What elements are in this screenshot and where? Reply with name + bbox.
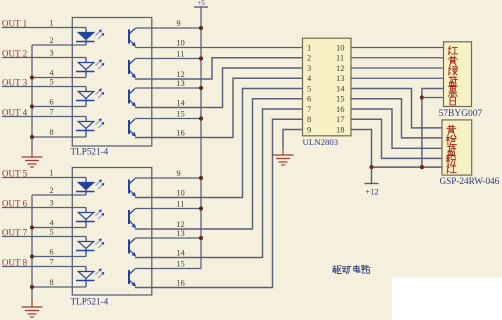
junction white wire bbox=[420, 95, 424, 99]
ground block B bbox=[22, 300, 43, 317]
title text: drive circuit bbox=[333, 266, 342, 274]
LED D1 ch1 filled bbox=[76, 28, 104, 46]
svg-text:14: 14 bbox=[176, 98, 185, 108]
svg-text:OUT 3: OUT 3 bbox=[2, 77, 28, 87]
svg-text:OUT 8: OUT 8 bbox=[2, 257, 28, 267]
junction bus/pin6 bbox=[30, 254, 34, 258]
emitter wire pin14 blkB to ULN pin7 bbox=[135, 109, 303, 258]
+5 power symbol bbox=[194, 6, 208, 8]
svg-text:7: 7 bbox=[307, 104, 311, 114]
opto-coupler U2 TLP521-4 box bbox=[72, 168, 152, 296]
char green motor1 bbox=[449, 66, 458, 75]
svg-text:OUT 4: OUT 4 bbox=[2, 107, 28, 117]
+12 power symbol bbox=[371, 167, 373, 183]
svg-text:57BYG007: 57BYG007 bbox=[439, 109, 483, 119]
svg-text:2: 2 bbox=[49, 185, 53, 195]
char orange motor2 bbox=[446, 135, 456, 145]
char black motor1 bbox=[449, 87, 457, 97]
svg-text:5: 5 bbox=[49, 227, 53, 237]
junction +5 bus / collector bbox=[199, 26, 203, 30]
svg-text:14: 14 bbox=[176, 248, 185, 258]
char red motor2 bbox=[447, 165, 456, 174]
collector wire pin 11 block B bbox=[135, 208, 201, 210]
junction bus/pin6 bbox=[30, 104, 34, 108]
collector wire pin 13 block B bbox=[135, 237, 201, 239]
junction bus/pin8 bbox=[30, 285, 34, 289]
wire ULN pin14 to motor2 pin 1 bbox=[351, 89, 442, 128]
svg-text:TLP521-4: TLP521-4 bbox=[71, 147, 109, 157]
collector wire pin 15 block B bbox=[135, 268, 201, 270]
svg-text:5: 5 bbox=[307, 83, 311, 93]
svg-text:12: 12 bbox=[336, 63, 345, 73]
LED D8 ch4 bbox=[76, 267, 104, 288]
char blue motor1 bbox=[448, 76, 457, 86]
wire OUT1 to optocoupler pin 1 bbox=[2, 27, 86, 29]
junction +5 bus / collector bbox=[199, 176, 203, 180]
phototransistor Q8 bbox=[129, 269, 136, 287]
wire optocoupler pin 4 to cathode bus bbox=[32, 77, 86, 79]
svg-text:1: 1 bbox=[49, 168, 53, 178]
char pink motor2 bbox=[446, 156, 455, 166]
svg-text:15: 15 bbox=[176, 109, 185, 119]
svg-text:1: 1 bbox=[307, 42, 311, 52]
LED D2 ch2 bbox=[76, 58, 104, 78]
svg-text:5: 5 bbox=[49, 77, 53, 87]
LED D6 ch2 bbox=[76, 208, 104, 228]
emitter wire pin14 blkA to ULN pin3 bbox=[135, 68, 303, 108]
svg-text:TLP521-4: TLP521-4 bbox=[71, 297, 109, 307]
svg-text:OUT 7: OUT 7 bbox=[2, 227, 28, 237]
white page corner bbox=[392, 278, 502, 320]
emitter wire pin16 blkA to ULN pin4 bbox=[135, 78, 303, 137]
wire optocoupler pin 8 to cathode bus bbox=[32, 286, 86, 288]
wire optocoupler pin 6 to cathode bus bbox=[32, 256, 86, 258]
junction +5 bus / collector bbox=[199, 206, 203, 210]
phototransistor Q2 bbox=[129, 59, 136, 78]
wire OUT5 to optocoupler pin 1 bbox=[2, 177, 86, 179]
char yellow motor1 bbox=[448, 56, 457, 66]
junction +5 bus / collector bbox=[199, 86, 203, 90]
svg-text:10: 10 bbox=[336, 42, 345, 52]
svg-text:17: 17 bbox=[336, 114, 345, 124]
svg-text:10: 10 bbox=[176, 188, 185, 198]
svg-text:3: 3 bbox=[49, 198, 53, 208]
phototransistor Q7 bbox=[129, 239, 136, 257]
wire ULN pin10 to motor1 pin 1 bbox=[351, 47, 444, 49]
wire optocoupler pin 8 to cathode bus bbox=[32, 136, 86, 138]
svg-text:6: 6 bbox=[49, 247, 53, 257]
wire OUT6 to optocoupler pin 3 bbox=[2, 207, 86, 209]
wire ULN pin11 to motor1 pin 2 bbox=[351, 57, 444, 59]
svg-text:16: 16 bbox=[176, 278, 185, 288]
phototransistor Q5 bbox=[129, 179, 136, 197]
svg-text:8: 8 bbox=[49, 127, 53, 137]
connector J1 motor 57BYG007 bbox=[444, 42, 472, 107]
phototransistor Q3 bbox=[129, 89, 136, 107]
wire ULN pin13 to motor1 pin 4 bbox=[351, 77, 444, 79]
svg-text:9: 9 bbox=[176, 168, 180, 178]
svg-text:6: 6 bbox=[307, 94, 311, 104]
svg-text:+5: +5 bbox=[197, 0, 205, 7]
svg-text:6: 6 bbox=[49, 97, 53, 107]
opto-coupler U1 TLP521-4 box bbox=[72, 18, 152, 147]
svg-text:8: 8 bbox=[49, 277, 53, 287]
collector wire pin 13 block A bbox=[135, 87, 201, 89]
char red motor1 bbox=[449, 46, 458, 55]
wire ULN pin15 to motor2 pin 2 bbox=[351, 99, 442, 138]
phototransistor Q1 bbox=[129, 29, 136, 47]
svg-text:7: 7 bbox=[49, 257, 53, 267]
ground block A bbox=[22, 150, 43, 167]
LED D7 ch3 bbox=[76, 237, 104, 257]
wire ULN pin18 to motor2 red / +12 node bbox=[351, 130, 442, 168]
LED D3 ch3 bbox=[76, 87, 104, 107]
ground ULN pin 9 bbox=[273, 148, 294, 165]
collector wire pin 11 block A bbox=[135, 58, 201, 60]
wire ULN pin9 to ground bbox=[283, 130, 303, 149]
wire OUT4 to optocoupler pin 7 bbox=[2, 116, 86, 118]
char blue motor2 bbox=[447, 145, 456, 155]
wire optocoupler pin 6 to cathode bus bbox=[32, 106, 86, 108]
+5 vertical bus bbox=[200, 7, 202, 269]
svg-text:14: 14 bbox=[336, 83, 345, 93]
wire optocoupler pin 4 to cathode bus bbox=[32, 227, 86, 229]
svg-text:18: 18 bbox=[336, 124, 345, 134]
char yellow motor2 bbox=[447, 125, 456, 135]
junction bus/pin4 bbox=[30, 225, 34, 229]
wire ULN pin17 to motor2 pin 4 bbox=[351, 119, 442, 158]
svg-text:OUT 1: OUT 1 bbox=[2, 18, 27, 28]
junction +5 bus / collector bbox=[199, 236, 203, 240]
svg-text:1: 1 bbox=[49, 18, 53, 28]
svg-text:11: 11 bbox=[176, 49, 184, 59]
junction bus/pin8 bbox=[30, 135, 34, 139]
svg-text:16: 16 bbox=[336, 104, 345, 114]
wire OUT2 to optocoupler pin 3 bbox=[2, 57, 86, 59]
wire OUT7 to optocoupler pin 5 bbox=[2, 236, 86, 238]
wire OUT3 to optocoupler pin 5 bbox=[2, 86, 86, 88]
svg-text:2: 2 bbox=[49, 35, 53, 45]
svg-text:OUT 6: OUT 6 bbox=[2, 198, 28, 208]
emitter wire pin12 blkA to ULN pin2 bbox=[135, 58, 303, 79]
wire OUT8 to optocoupler pin 7 bbox=[2, 266, 86, 268]
LED D4 ch4 bbox=[76, 117, 104, 138]
svg-text:+12: +12 bbox=[365, 187, 378, 197]
svg-text:9: 9 bbox=[176, 18, 180, 28]
collector wire pin 9 block B bbox=[135, 177, 201, 179]
wire motor1 black/white commons to +12 bbox=[422, 89, 444, 168]
wire ULN pin12 to motor1 pin 3 bbox=[351, 67, 444, 69]
svg-text:2: 2 bbox=[307, 53, 311, 63]
cathode bus block B bbox=[31, 195, 33, 300]
svg-text:11: 11 bbox=[176, 199, 184, 209]
svg-text:7: 7 bbox=[49, 107, 53, 117]
svg-text:3: 3 bbox=[307, 63, 311, 73]
junction +5 bus / collector bbox=[199, 56, 203, 60]
junction +12 / red wire bbox=[369, 165, 373, 169]
IC U3 ULN2803 bbox=[303, 38, 352, 136]
svg-text:10: 10 bbox=[176, 38, 185, 48]
wire optocoupler pin 2 to cathode bus bbox=[32, 194, 86, 196]
svg-text:11: 11 bbox=[336, 53, 344, 63]
svg-text:8: 8 bbox=[307, 114, 311, 124]
svg-text:ULN2803: ULN2803 bbox=[303, 137, 339, 147]
wire optocoupler pin 2 to cathode bus bbox=[32, 44, 86, 46]
phototransistor Q4 bbox=[129, 119, 136, 137]
junction +5 bus / collector bbox=[199, 116, 203, 120]
emitter wire pin16 blkB to ULN pin8 bbox=[135, 119, 303, 287]
collector wire pin 15 block A bbox=[135, 118, 201, 120]
LED D5 ch1 filled bbox=[76, 178, 104, 196]
svg-text:9: 9 bbox=[307, 124, 311, 134]
wire white stub bbox=[422, 97, 444, 99]
wire ULN pin16 to motor2 pin 3 bbox=[351, 109, 442, 148]
emitter wire pin10 to ULN pin1 bbox=[135, 47, 303, 49]
collector wire pin 9 block A bbox=[135, 27, 201, 29]
svg-text:GSP-24RW-046: GSP-24RW-046 bbox=[440, 176, 500, 186]
svg-text:16: 16 bbox=[176, 128, 185, 138]
connector J2 motor GSP-24RW-046 bbox=[442, 120, 472, 175]
svg-text:13: 13 bbox=[336, 73, 345, 83]
junction +12 vertical / red wire bbox=[420, 165, 424, 169]
char white motor1 bbox=[450, 96, 455, 105]
emitter wire pin12 blkB to ULN pin6 bbox=[135, 99, 303, 229]
phototransistor Q6 bbox=[129, 209, 136, 228]
svg-text:15: 15 bbox=[336, 94, 345, 104]
svg-text:15: 15 bbox=[176, 259, 185, 269]
svg-text:OUT 2: OUT 2 bbox=[2, 48, 27, 58]
emitter wire pin10 blkB to ULN pin5 bbox=[135, 89, 303, 198]
svg-text:OUT 5: OUT 5 bbox=[2, 168, 28, 178]
svg-text:3: 3 bbox=[49, 48, 53, 58]
junction bus/pin4 bbox=[30, 75, 34, 79]
cathode bus block A bbox=[31, 45, 33, 150]
